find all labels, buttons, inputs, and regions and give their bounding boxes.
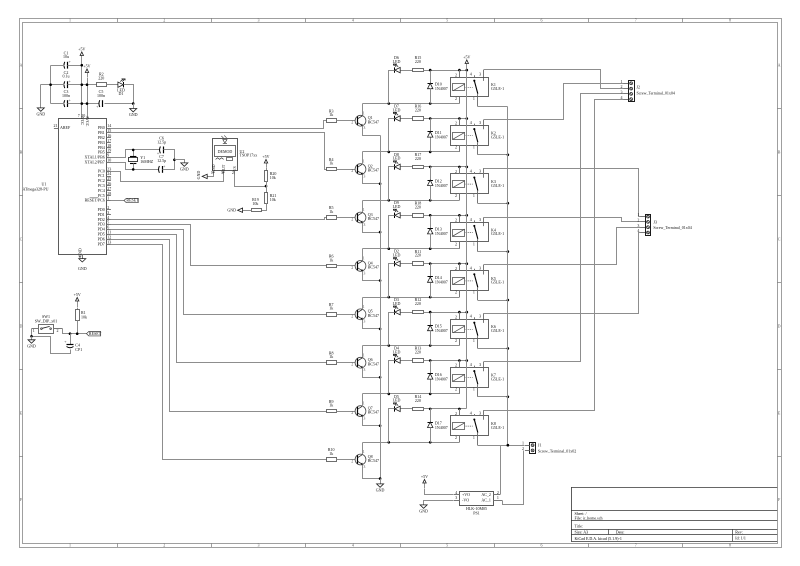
svg-text:GND: GND	[376, 488, 385, 493]
pin NO contact K7	[474, 366, 476, 368]
svg-text:1k: 1k	[329, 306, 333, 311]
svg-text:0.1u: 0.1u	[63, 74, 70, 79]
LED D2	[394, 261, 396, 266]
wire +5V rail to VCC	[81, 66, 83, 119]
wire LED to R11	[401, 263, 413, 265]
resistor R21	[266, 187, 268, 193]
svg-text:5: 5	[446, 542, 448, 547]
pin 17 PB3	[107, 142, 111, 144]
svg-text:220: 220	[415, 253, 421, 258]
svg-text:J1: J1	[538, 443, 542, 448]
svg-text:1: 1	[363, 304, 365, 309]
svg-text:G5LE-1: G5LE-1	[491, 328, 504, 333]
svg-text:RESET: RESET	[89, 331, 102, 336]
diode D10 1N4007	[430, 71, 432, 84]
relay K1 G5LE-1	[451, 78, 489, 97]
wire PS1 AC_2 to common bus	[500, 446, 502, 495]
junction	[429, 262, 432, 265]
wire C2 row	[41, 84, 65, 86]
svg-text:LED: LED	[393, 156, 401, 161]
resistor R1	[77, 308, 79, 310]
wire +5V to PS1 +VO	[425, 489, 454, 495]
pin 3 PD1	[107, 214, 111, 216]
screw terminal J2 Screw_Terminal_01x04	[629, 81, 635, 102]
svg-text:12.5p: 12.5p	[157, 139, 166, 144]
wire to crystal ground	[175, 160, 185, 163]
svg-text:3: 3	[637, 223, 639, 228]
svg-text:2: 2	[637, 218, 639, 223]
transistor Q1 BC547	[355, 115, 366, 126]
svg-text:GND: GND	[196, 171, 201, 180]
junction	[429, 393, 432, 396]
pin NO contact K4	[474, 220, 476, 222]
wire collector line stage 4	[363, 248, 460, 250]
pin NO contact K1	[474, 75, 476, 77]
svg-text:1: 1	[69, 18, 71, 23]
relay K4 G5LE-1	[451, 223, 489, 242]
svg-text:4: 4	[470, 72, 472, 77]
junction	[429, 199, 432, 202]
resistor R13	[413, 359, 424, 363]
svg-text:220: 220	[415, 301, 421, 306]
svg-text:2: 2	[455, 411, 457, 416]
svg-text:2: 2	[57, 328, 59, 333]
junction	[379, 477, 382, 480]
svg-text:PD2: PD2	[98, 217, 105, 222]
wire LED to R18	[401, 215, 413, 217]
wire R19 to ground flag	[243, 210, 252, 212]
pin coil top K3	[459, 167, 461, 174]
svg-text:GND: GND	[227, 207, 236, 212]
wire AVCC riser	[87, 78, 89, 119]
wire K7 NC to J2 pin3	[484, 94, 624, 362]
svg-text:BC547: BC547	[368, 458, 379, 463]
junction	[429, 69, 432, 72]
pin NC contact K6	[483, 313, 485, 319]
transistor Q6 BC547	[355, 357, 366, 368]
pin NC contact K3	[483, 168, 485, 174]
svg-text:25: 25	[107, 176, 111, 181]
junction	[132, 149, 135, 152]
svg-text:3: 3	[479, 265, 481, 270]
LED D5	[394, 406, 396, 411]
wire Q6 collector	[362, 346, 364, 358]
pin 27 PC4	[107, 190, 111, 192]
wire common K2 to bus	[478, 154, 508, 156]
svg-text:8: 8	[729, 542, 731, 547]
junction	[81, 83, 84, 86]
svg-text:GND: GND	[36, 112, 45, 117]
pin NC contact K5	[483, 265, 485, 271]
svg-text:Screw_Terminal_01x02: Screw_Terminal_01x02	[538, 448, 576, 453]
svg-text:3: 3	[479, 169, 481, 174]
svg-text:2: 2	[163, 542, 165, 547]
svg-text:1N4007: 1N4007	[435, 425, 448, 430]
svg-text:LED: LED	[393, 107, 401, 112]
junction	[458, 214, 461, 217]
svg-text:1k: 1k	[329, 209, 333, 214]
svg-text:2: 2	[351, 313, 353, 318]
pin 15 PB1	[107, 132, 111, 134]
svg-text:PD1: PD1	[98, 212, 105, 217]
svg-text:11: 11	[107, 230, 111, 235]
junction	[429, 117, 432, 120]
junction	[132, 168, 135, 171]
svg-text:1: 1	[473, 290, 475, 295]
svg-text:File: ir_home.sch: File: ir_home.sch	[575, 516, 603, 521]
svg-text:ATmega328-PU: ATmega328-PU	[23, 187, 49, 192]
svg-text:4: 4	[470, 411, 472, 416]
junction	[49, 83, 52, 86]
wire R8 to Q6 base	[337, 362, 356, 364]
svg-text:PD4: PD4	[98, 227, 105, 232]
svg-text:1: 1	[363, 110, 365, 115]
resistor R18	[413, 214, 424, 218]
svg-text:1: 1	[363, 352, 365, 357]
svg-text:PC2: PC2	[98, 178, 105, 183]
wire C1 row	[51, 65, 65, 67]
junction	[507, 444, 510, 447]
wire PS1 AC_1 to J1 pin2	[503, 451, 524, 505]
svg-text:2: 2	[455, 241, 457, 246]
wire PD6 to R9	[111, 240, 327, 412]
wire Q7 collector	[362, 394, 364, 407]
svg-text:BC547: BC547	[368, 265, 379, 270]
svg-text:PB2: PB2	[98, 135, 105, 140]
svg-text:4: 4	[470, 265, 472, 270]
wire R2 to LED D1	[107, 84, 118, 86]
ir receiver U2 TSOP17xx	[213, 139, 238, 171]
svg-text:3: 3	[479, 362, 481, 367]
svg-text:2: 2	[621, 84, 623, 89]
wire common K8 to bus	[478, 445, 508, 447]
pin 11 PD5	[107, 234, 111, 236]
pin coil top K1	[459, 70, 461, 77]
pin 23 PC0	[107, 171, 111, 173]
svg-text:10k: 10k	[270, 175, 276, 180]
pin coil top K4	[459, 215, 461, 222]
junction	[379, 328, 382, 331]
svg-text:PC3: PC3	[98, 183, 105, 188]
relay K6 G5LE-1	[451, 320, 489, 339]
junction	[507, 154, 510, 157]
pin 4 PD2	[107, 219, 111, 221]
svg-text:220: 220	[415, 350, 421, 355]
svg-text:27: 27	[107, 186, 111, 191]
svg-text:HLK-10M05: HLK-10M05	[466, 506, 487, 511]
LED D1	[118, 82, 123, 87]
svg-text:XTAL2/PB7: XTAL2/PB7	[84, 160, 104, 165]
pin NO contact K8	[474, 414, 476, 416]
capacitor C3	[63, 100, 66, 107]
svg-text:1N4007: 1N4007	[435, 86, 448, 91]
svg-text:DEMOD: DEMOD	[218, 149, 233, 154]
svg-text:+5V: +5V	[83, 63, 90, 68]
capacitor C2	[63, 81, 66, 88]
LED D4	[394, 358, 396, 363]
wire common K1 to bus	[478, 106, 508, 108]
junction	[466, 359, 469, 362]
svg-text:1: 1	[69, 542, 71, 547]
wire PD4 to R7	[111, 230, 327, 315]
svg-text:8: 8	[729, 18, 731, 23]
wire Q7 emitter	[363, 417, 381, 426]
pin NC contact K7	[483, 362, 485, 368]
svg-text:2: 2	[351, 362, 353, 367]
wire common K5 to bus	[478, 300, 508, 302]
svg-text:1k: 1k	[329, 451, 333, 456]
junction	[379, 182, 382, 185]
pin 5 PD3	[107, 224, 111, 226]
resistor R9	[327, 410, 337, 413]
pin 2 AC_2 (PS1)	[493, 494, 500, 496]
wire collector line stage 6	[363, 345, 460, 347]
svg-text:+5V: +5V	[463, 54, 470, 59]
junction	[507, 396, 510, 399]
wire R16 to +5V rail stage 2	[424, 118, 467, 120]
power flag +5V (PS1)	[424, 483, 426, 488]
wire LED to R17	[401, 166, 413, 168]
junction	[458, 359, 461, 362]
ground (emitter bus)	[380, 479, 382, 484]
junction	[379, 376, 382, 379]
svg-text:220: 220	[415, 204, 421, 209]
wire PD7 to R10	[111, 245, 327, 460]
ground (PS1)	[420, 505, 427, 508]
wire Q2 emitter	[363, 175, 381, 184]
svg-text:3: 3	[363, 270, 365, 275]
svg-text:220: 220	[415, 108, 421, 113]
junction	[265, 185, 268, 188]
svg-text:Date:: Date:	[616, 530, 625, 535]
svg-text:SW_DIP_x01: SW_DIP_x01	[35, 318, 57, 323]
wire left cap bus	[50, 66, 52, 104]
svg-text:+VO: +VO	[462, 492, 470, 497]
svg-text:4: 4	[107, 215, 109, 220]
transistor Q3 BC547	[355, 212, 366, 223]
resistor R20	[266, 168, 268, 171]
wire Q4 emitter	[363, 272, 381, 281]
svg-text:1k: 1k	[329, 161, 333, 166]
svg-text:7: 7	[78, 113, 80, 118]
svg-text:J2: J2	[637, 84, 641, 89]
wire R20 to node	[266, 182, 268, 187]
junction	[388, 393, 391, 396]
wire C4 to ground loop	[32, 337, 71, 354]
wire LED cathode stage 2	[389, 119, 395, 152]
svg-text:3: 3	[363, 464, 365, 469]
junction	[81, 102, 84, 105]
junction	[379, 424, 382, 427]
wire Q5 emitter	[363, 320, 381, 329]
wire Q3 emitter	[363, 223, 381, 233]
svg-text:PC0: PC0	[98, 168, 105, 173]
pin 10 XTAL2/PB7	[107, 162, 111, 164]
svg-text:J3: J3	[653, 220, 657, 225]
wire LED cathode stage 8	[389, 409, 395, 443]
svg-text:PS1: PS1	[473, 510, 479, 515]
svg-text:BC547: BC547	[368, 216, 379, 221]
svg-text:D16: D16	[435, 372, 442, 377]
junction	[30, 335, 33, 338]
svg-text:2: 2	[455, 169, 457, 174]
power flag +5V (top-left)	[81, 56, 83, 66]
wire Q1 collector	[362, 104, 364, 116]
svg-text:G5LE-1: G5LE-1	[491, 183, 504, 188]
svg-text:LED: LED	[393, 204, 401, 209]
resistor R10	[327, 458, 337, 462]
pin common K7	[477, 387, 479, 397]
svg-text:Screw_Terminal_01x04: Screw_Terminal_01x04	[637, 91, 675, 96]
ground (left caps)	[37, 108, 44, 111]
svg-text:28: 28	[107, 191, 111, 196]
wire LED cathode stage 7	[389, 361, 395, 394]
junction	[429, 247, 432, 250]
junction	[429, 296, 432, 299]
svg-text:5: 5	[107, 220, 109, 225]
pin 25 PC2	[107, 180, 111, 182]
diode D16 1N4007	[430, 361, 432, 374]
svg-text:1: 1	[363, 401, 365, 406]
svg-text:2: 2	[455, 121, 457, 126]
junction	[507, 250, 510, 253]
wire PS1 -VO to ground	[424, 501, 454, 505]
wire PD2 to R5	[111, 218, 327, 220]
pin 2 SW1	[54, 328, 63, 330]
wire U2 GND pin	[208, 175, 214, 177]
svg-text:VS: VS	[232, 166, 237, 171]
resistor R2	[97, 83, 107, 87]
svg-text:G5LE-1: G5LE-1	[491, 425, 504, 430]
resistor R8	[327, 361, 337, 365]
pin coil bottom K7	[459, 387, 461, 394]
svg-text:10k: 10k	[252, 201, 258, 206]
svg-text:16MHZ: 16MHZ	[140, 159, 153, 164]
svg-text:220: 220	[415, 398, 421, 403]
pin 8 GND	[82, 254, 84, 258]
wire R3 to Q1 base	[337, 120, 356, 122]
svg-text:6: 6	[107, 225, 109, 230]
svg-text:BC547: BC547	[368, 168, 379, 173]
junction	[81, 64, 84, 67]
pin 18 PB4	[107, 147, 111, 149]
capacitor C4	[70, 334, 72, 345]
wire C6 to corner	[163, 150, 175, 170]
transistor Q8 BC547	[355, 454, 366, 465]
svg-text:1k: 1k	[329, 257, 333, 262]
ground flag (R19)	[238, 208, 243, 212]
svg-text:4: 4	[470, 120, 472, 125]
svg-text:PD0: PD0	[98, 207, 105, 212]
wire LED to R16	[401, 118, 413, 120]
relay K2 G5LE-1	[451, 126, 489, 146]
svg-text:1: 1	[637, 212, 639, 217]
wire collector line stage 8	[363, 442, 460, 444]
capacitor C1	[63, 62, 66, 69]
wire R18 to +5V rail stage 4	[424, 215, 467, 217]
wire XTAL1	[111, 150, 160, 158]
svg-text:26: 26	[107, 181, 111, 186]
wire U2 VS to R20/R21	[235, 175, 267, 187]
svg-text:2: 2	[455, 145, 457, 150]
wire R17 to +5V rail stage 3	[424, 166, 467, 168]
svg-text:D11: D11	[435, 130, 442, 135]
wire Q8 collector	[362, 443, 364, 455]
svg-text:12: 12	[107, 234, 111, 239]
svg-text:4: 4	[621, 95, 623, 100]
svg-text:LED: LED	[393, 59, 401, 64]
svg-text:GND: GND	[180, 167, 189, 172]
svg-text:3: 3	[479, 120, 481, 125]
svg-text:4: 4	[470, 217, 472, 222]
svg-text:4: 4	[470, 362, 472, 367]
junction	[388, 441, 391, 444]
svg-text:KiCad E.D.A. kicad (5.1.9)-1: KiCad E.D.A. kicad (5.1.9)-1	[575, 536, 622, 541]
svg-text:1: 1	[473, 193, 475, 198]
LED D8	[394, 164, 396, 169]
svg-text:PB3: PB3	[98, 140, 105, 145]
wire common K7 to bus	[478, 396, 508, 398]
svg-text:1: 1	[107, 196, 109, 201]
svg-text:2: 2	[455, 96, 457, 101]
wire R11 to +5V rail stage 5	[424, 263, 467, 265]
svg-text:1: 1	[473, 241, 475, 246]
svg-text:100n: 100n	[62, 93, 70, 98]
wire emitter bus	[380, 136, 382, 479]
svg-text:BC547: BC547	[368, 119, 379, 124]
svg-text:Id: 1/1: Id: 1/1	[735, 536, 746, 541]
junction	[466, 69, 469, 72]
LED D7	[394, 116, 396, 121]
screw terminal J1 Screw_Terminal_01x02	[530, 443, 536, 454]
wire Q6 emitter	[363, 368, 381, 378]
svg-text:RESET/PC6: RESET/PC6	[85, 198, 105, 203]
pin common K8	[477, 435, 479, 445]
wire D1 cathode down	[124, 85, 134, 104]
resistor R11	[413, 262, 424, 266]
junction	[458, 311, 461, 314]
resistor R14	[413, 408, 424, 411]
wire C3 row	[51, 103, 65, 105]
wire common K3 to bus	[478, 203, 508, 205]
svg-text:AVCC: AVCC	[85, 116, 90, 127]
svg-text:TSOP17xx: TSOP17xx	[240, 153, 258, 158]
wire collector line stage 7	[363, 393, 460, 395]
wire R7 to Q5 base	[337, 314, 356, 316]
wire Q3 collector	[362, 201, 364, 213]
wire LED cathode stage 4	[389, 216, 395, 249]
svg-text:1: 1	[473, 145, 475, 150]
svg-text:6: 6	[540, 18, 542, 23]
LED D9	[394, 213, 396, 218]
pin 4 +VO (PS1)	[454, 494, 460, 496]
junction	[507, 347, 510, 350]
svg-text:10k: 10k	[81, 314, 87, 319]
junction	[466, 117, 469, 120]
svg-text:BC547: BC547	[368, 361, 379, 366]
svg-text:2: 2	[351, 459, 353, 464]
junction	[429, 359, 432, 362]
pin NC contact K8	[483, 410, 485, 416]
wire collector line stage 3	[363, 200, 460, 202]
svg-text:+5V: +5V	[78, 46, 85, 51]
wire SW1 pin1 down	[31, 329, 33, 337]
svg-text:4: 4	[352, 542, 354, 547]
junction	[86, 83, 89, 86]
svg-text:1N4007: 1N4007	[435, 280, 448, 285]
svg-text:PD7: PD7	[98, 241, 105, 246]
transistor Q5 BC547	[355, 309, 366, 320]
